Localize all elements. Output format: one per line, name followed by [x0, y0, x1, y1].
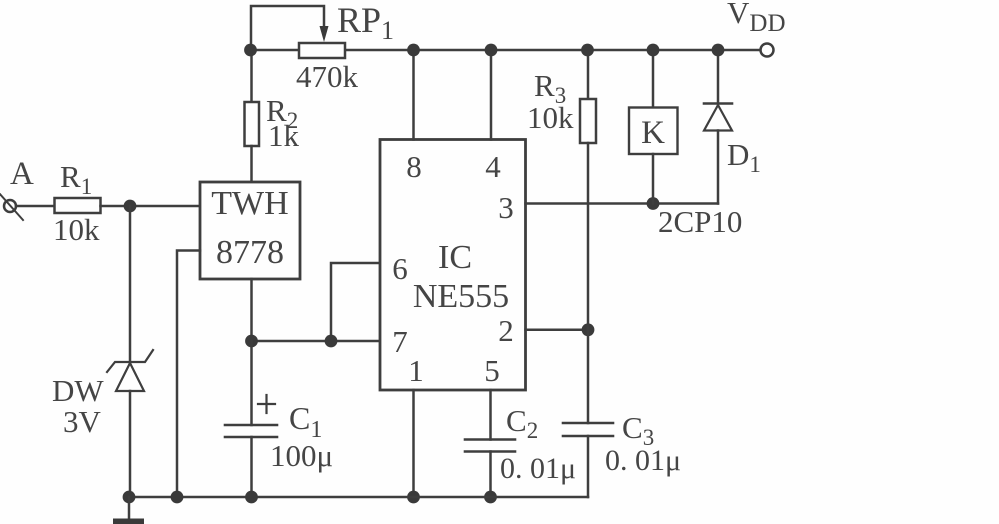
wire pin 3 output net	[526, 202, 719, 205]
zener diode DW	[107, 350, 153, 372]
junction node pin1 on ground rail	[407, 491, 420, 504]
junction node pin8 on rail	[407, 44, 420, 57]
wire bottom ground rail	[129, 496, 588, 499]
terminal A input	[4, 200, 16, 212]
wire TWH lower-left pin	[177, 251, 200, 498]
svg-text:A: A	[10, 156, 34, 192]
junction node K bottom on pin3 net	[647, 197, 660, 210]
svg-text:5: 5	[484, 353, 500, 388]
terminal VDD	[761, 44, 774, 57]
svg-text:NE555: NE555	[413, 278, 509, 315]
svg-text:1: 1	[408, 353, 424, 388]
resistor R3 body	[580, 99, 596, 143]
junction node DW on ground rail	[123, 491, 136, 504]
wire R2 bottom lead to TWH	[250, 146, 253, 182]
svg-text:2: 2	[498, 313, 514, 348]
wire pin 8 to supply rail	[412, 50, 415, 140]
relay K box	[629, 108, 678, 155]
wire pin7 net: node to IC pin 7	[252, 340, 381, 343]
svg-text:3V: 3V	[63, 404, 102, 439]
junction node K on rail	[647, 44, 660, 57]
junction node RP1 left / R2	[244, 44, 257, 57]
wire K top lead	[652, 50, 655, 108]
wire D1 anode lead to pin3 net	[717, 131, 720, 204]
svg-text:VDD: VDD	[727, 0, 786, 37]
svg-text:3: 3	[498, 190, 514, 225]
wire D1 top lead	[717, 50, 720, 104]
svg-text:0. 01μ: 0. 01μ	[500, 452, 576, 485]
wire R3 bottom lead down across pin3 net to pin2 node	[587, 143, 590, 330]
svg-text:IC: IC	[438, 239, 472, 276]
svg-text:4: 4	[485, 149, 501, 184]
wire top supply rail	[250, 49, 761, 52]
resistor R2 body	[245, 102, 260, 146]
junction node pin4 on rail	[485, 44, 498, 57]
wire pin 4 to supply rail	[490, 50, 493, 140]
junction node pin6 loop on pin7 net	[325, 335, 338, 348]
svg-text:0. 01μ: 0. 01μ	[605, 444, 681, 477]
svg-text:2CP10: 2CP10	[658, 204, 742, 239]
svg-text:TWH: TWH	[211, 185, 288, 222]
junction node at R1 output	[124, 200, 137, 213]
capacitor C1 plates	[225, 424, 277, 427]
wire RP1 wiper loop	[251, 6, 324, 50]
wire node down to zener DW	[129, 206, 132, 362]
plus polarity mark of C1	[258, 403, 275, 405]
svg-text:D1: D1	[727, 137, 761, 177]
svg-text:100μ: 100μ	[270, 438, 333, 473]
svg-text:K: K	[641, 115, 665, 151]
wire K bottom lead to pin3 net	[652, 154, 655, 204]
junction node D1 on rail	[712, 44, 725, 57]
diode D1 triangle	[704, 105, 732, 131]
svg-text:8: 8	[406, 149, 422, 184]
wiper arrow of RP1	[320, 26, 329, 42]
capacitor C1 top lead	[250, 341, 253, 425]
svg-text:DW: DW	[52, 373, 104, 408]
svg-text:7: 7	[392, 324, 408, 359]
junction node C2 on ground rail	[484, 491, 497, 504]
resistor R1 body	[55, 198, 101, 213]
wire pin 5 to C2	[489, 390, 492, 440]
svg-text:1k: 1k	[268, 118, 300, 153]
IC U1 TWH8778 box	[200, 182, 300, 279]
svg-text:470k: 470k	[296, 59, 359, 94]
capacitor C2 plates	[465, 438, 515, 441]
svg-text:10k: 10k	[53, 212, 100, 247]
junction node TWH/C1/pin7	[245, 335, 258, 348]
junction node C1 on ground rail	[245, 491, 258, 504]
wire pin2 node down to C3	[587, 330, 590, 423]
svg-text:8778: 8778	[216, 234, 284, 271]
wire zener DW to ground rail	[129, 391, 132, 497]
wire pin 1 to ground rail	[412, 390, 415, 497]
resistor RP1 body	[299, 43, 345, 58]
wire R2 top lead	[250, 50, 253, 102]
svg-text:C2: C2	[506, 403, 538, 443]
junction node pin2/R3/C3	[582, 323, 595, 336]
svg-text:10k: 10k	[527, 100, 574, 135]
junction node R3 on rail	[581, 44, 594, 57]
capacitor C2 bottom lead	[489, 452, 492, 498]
wire pin 2 net to R3/C3	[526, 329, 589, 332]
junction node TWH-left wire on ground rail	[171, 491, 184, 504]
wire R1 to TWH input	[101, 205, 201, 208]
capacitor C3 plates	[563, 422, 613, 425]
wire TWH bottom pin down to node	[250, 279, 253, 341]
svg-text:C1: C1	[289, 400, 322, 443]
IC U2 NE555 box	[380, 140, 526, 391]
wire pin6 to pin7 loop	[331, 263, 380, 341]
wire terminal A to R1	[16, 205, 55, 208]
ground	[128, 497, 131, 519]
resistor R3 top lead	[587, 50, 590, 99]
svg-text:6: 6	[392, 251, 408, 286]
svg-text:RP1: RP1	[337, 0, 394, 45]
capacitor C3 bottom lead to ground rail	[587, 436, 590, 497]
capacitor C1 bottom lead	[250, 437, 253, 497]
svg-text:R1: R1	[60, 159, 92, 199]
diode D1 cathode bar	[704, 102, 732, 105]
